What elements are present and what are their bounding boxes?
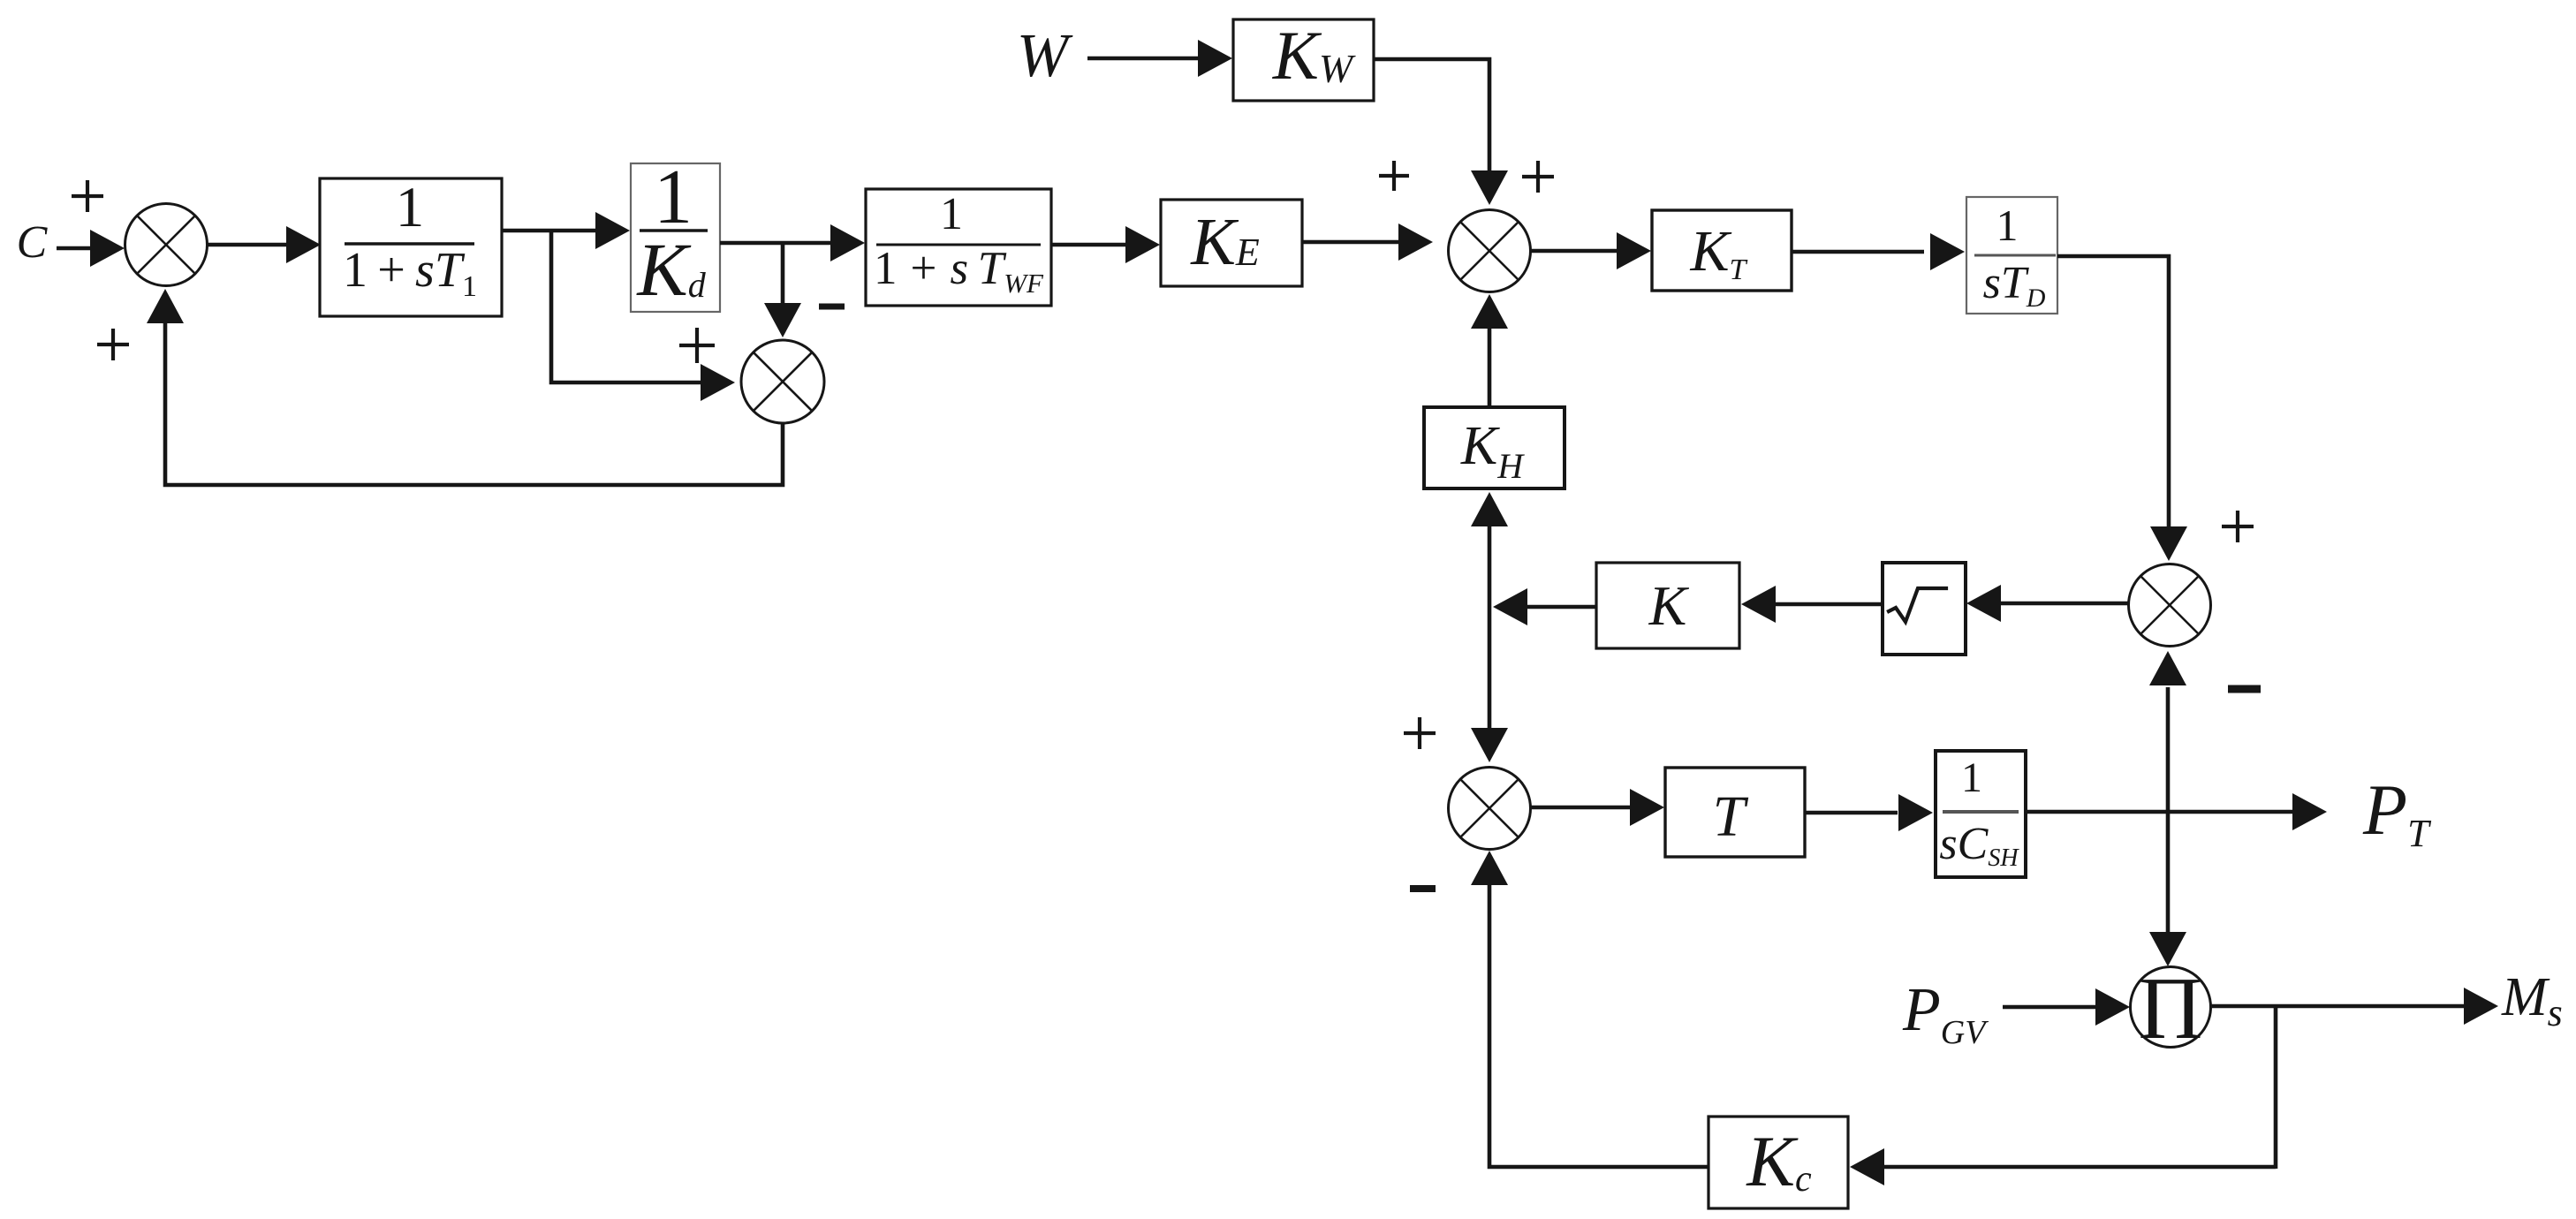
block K xyxy=(1596,563,1739,648)
svg-text:1: 1 xyxy=(1996,201,2019,250)
wire 1/sCSH output to PT (crosses vertical line) xyxy=(2026,793,2327,830)
plus sign at S3 left input xyxy=(1379,161,1409,191)
wire sqrt block to block K xyxy=(1741,586,1883,623)
block T xyxy=(1665,768,1805,857)
wire block 1/(1+sTWF) to block KE xyxy=(1051,226,1160,263)
wire W to block KW xyxy=(1087,40,1232,77)
product junction PI xyxy=(2131,958,2211,1057)
wire branch down to S2 minus input xyxy=(764,243,801,337)
svg-text:1: 1 xyxy=(396,176,425,239)
svg-text:W: W xyxy=(1017,22,1073,90)
wire branch down to summing junction S2 plus input xyxy=(551,229,735,401)
block KE xyxy=(1161,200,1302,286)
wire C to summing junction S1 xyxy=(57,230,125,267)
plus sign at summing junction S1 upper input xyxy=(72,180,103,212)
svg-text:T: T xyxy=(1713,784,1749,849)
plus sign at S5 top input xyxy=(1404,717,1436,749)
wire PGV to product junction xyxy=(2003,988,2130,1026)
block 1/(1+sTWF) xyxy=(866,189,1051,306)
svg-text:Π: Π xyxy=(2139,958,2203,1057)
node W (input signal label) xyxy=(1017,22,1073,90)
wire KW to S3 top input xyxy=(1374,59,1508,205)
plus sign at S1 lower (feedback) input xyxy=(97,329,129,360)
wire 1/sTD to summing junction S4 xyxy=(2057,256,2187,561)
block 1/sTD xyxy=(1966,197,2057,314)
wire T to block 1/sCSH xyxy=(1805,794,1933,831)
block KW xyxy=(1233,17,1374,101)
block KT xyxy=(1652,210,1792,291)
summing junction S4 xyxy=(2129,564,2211,647)
node PGV (input label) xyxy=(1902,976,1989,1051)
svg-text:1 + sT1: 1 + sT1 xyxy=(343,243,477,303)
wire block 1/(1+sT1) to block 1/Kd (branch node at x=624) xyxy=(502,212,630,249)
summing junction S5 xyxy=(1449,768,1531,850)
wire KH to S3 bottom input xyxy=(1471,294,1508,407)
node PT (output label) xyxy=(2362,769,2432,855)
minus sign at S5 bottom input xyxy=(1410,885,1436,892)
block sqrt xyxy=(1883,563,1966,655)
wire block 1/Kd to block 1/(1+sTWF) (branch node at x=886) xyxy=(720,224,865,261)
wire KT to block 1/sTD xyxy=(1792,233,1965,270)
block 1/sCSH xyxy=(1936,751,2026,877)
wire branch down from Ms line xyxy=(2274,1006,2278,1169)
svg-text:1: 1 xyxy=(940,189,963,239)
summing junction S3 xyxy=(1449,210,1531,292)
block 1/(1+sT1) xyxy=(320,176,502,316)
wire K to vertical line (junction at 1686,687) xyxy=(1493,588,1596,625)
node Ms (output label) xyxy=(2501,967,2563,1034)
wire Kc to S5 minus input xyxy=(1471,851,1708,1167)
wire S3 to block KT xyxy=(1531,232,1651,269)
plus sign at S2 left input xyxy=(679,328,715,363)
summing junction S2 xyxy=(741,340,824,423)
svg-text:1: 1 xyxy=(1961,754,1982,801)
svg-text:K: K xyxy=(1648,574,1690,637)
block KH xyxy=(1424,407,1565,488)
wire KE to summing junction S3 xyxy=(1302,223,1433,261)
wire S5 to block T xyxy=(1531,789,1664,826)
wire S2 feedback to S1 lower input xyxy=(147,289,783,485)
node C (input signal label) xyxy=(17,217,49,268)
wire from crossing up to S4 minus input and down to product junction xyxy=(2149,651,2186,966)
block Kc xyxy=(1708,1117,1848,1208)
block 1/Kd xyxy=(631,155,720,312)
svg-text:C: C xyxy=(17,217,49,268)
plus sign at S4 top input xyxy=(2222,511,2254,542)
plus sign at S3 top-right input xyxy=(1522,161,1554,193)
wire junction down to summing junction S5 xyxy=(1471,607,1508,762)
minus sign at S4 bottom input xyxy=(2228,685,2261,693)
wire product junction to Ms output (branch node at x=2576) xyxy=(2211,988,2498,1025)
minus sign at S2 top input xyxy=(819,304,845,310)
wire S1 to block 1/(1+sT1) xyxy=(207,226,321,263)
wire junction up into block KH xyxy=(1471,492,1508,607)
wire bottom line to block Kc xyxy=(1850,1148,2276,1185)
wire S4 to sqrt block xyxy=(1966,585,2128,622)
summing junction S1 xyxy=(125,204,208,286)
